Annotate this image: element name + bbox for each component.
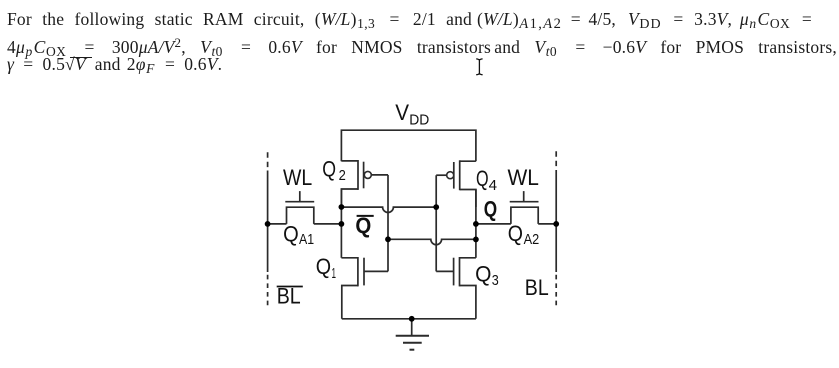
bit line BLbar dashed top: [267, 152, 269, 170]
wire QA2 to BL: [538, 223, 556, 225]
wire right gate line: [435, 175, 437, 271]
radical overline for sqrt(V): [70, 57, 92, 59]
transistor Q4 drain lead: [460, 190, 476, 208]
svg-text:WL: WL: [283, 165, 312, 190]
transistor Q1 gate lead: [364, 270, 388, 272]
wire QA1 to node Qbar: [314, 223, 342, 225]
transistor Q2 gate bar: [363, 162, 365, 189]
transistor Q4 channel: [459, 160, 461, 190]
transistor Q3 gate lead: [436, 270, 453, 272]
wire VDD top rail: [341, 130, 476, 161]
node ground junction: [409, 316, 415, 322]
bit line BLbar dashed bottom: [267, 275, 269, 306]
node Q lower junction: [473, 237, 479, 243]
wire right drain column: [475, 190, 477, 258]
label QA2: [508, 221, 539, 248]
bit line BL dashed top: [555, 151, 557, 170]
transistor Q3 drain lead: [460, 257, 476, 259]
svg-text:V: V: [395, 100, 409, 125]
transistor Q3 source lead: [460, 286, 476, 319]
wire upper cross-couple with hop: [341, 207, 436, 212]
svg-text:Q: Q: [283, 222, 299, 247]
problem text line 1: [7, 11, 472, 33]
transistor Q3 gate bar: [453, 258, 455, 286]
ground bar 3: [410, 349, 415, 351]
svg-text:1: 1: [332, 265, 337, 282]
node Q access junction: [473, 221, 479, 227]
wire lower cross-couple with hop: [388, 239, 476, 244]
svg-text:A1: A1: [299, 231, 314, 248]
transistor QA2 gate plate: [510, 201, 539, 203]
transistor Q3 channel: [459, 257, 461, 286]
node Qbar upper junction: [339, 204, 345, 210]
wire node Q to QA2: [476, 223, 511, 225]
ground bar 2: [403, 342, 422, 344]
node Qbar access junction: [339, 221, 345, 227]
label node Qbar: [355, 213, 373, 238]
wire BLbar to QA1: [268, 223, 287, 225]
transistor Q4 gate lead: [436, 174, 447, 176]
transistor Q4 gate bubble: [447, 172, 454, 179]
mouse I-beam cursor: [476, 59, 482, 75]
svg-text:Q: Q: [322, 157, 336, 182]
transistor Q4 source lead: [460, 160, 476, 162]
label Q1: [316, 254, 336, 282]
svg-text:WL: WL: [508, 165, 539, 190]
bit line BLbar solid: [267, 171, 269, 273]
transistor Q1 gate bar: [363, 258, 365, 286]
wire left gate line: [387, 175, 389, 272]
svg-text:Q: Q: [475, 262, 491, 287]
transistor Q2 source lead: [341, 160, 358, 162]
transistor Q2 drain lead: [341, 189, 358, 207]
svg-text:DD: DD: [409, 111, 429, 128]
transistor QA1 gate stub: [299, 191, 301, 201]
svg-text:BL: BL: [525, 275, 549, 300]
transistor Q1 drain lead: [341, 257, 358, 259]
node upper-wire to right gate junction: [433, 204, 439, 210]
label VDD: [395, 100, 429, 128]
problem text line 3: [7, 56, 222, 78]
transistor QA1 channel staple: [287, 207, 314, 224]
svg-text:A2: A2: [524, 231, 540, 248]
label Q4: [476, 166, 497, 194]
wire ground rail: [342, 318, 476, 320]
svg-text:2: 2: [339, 167, 346, 184]
wire left drain column: [340, 189, 342, 258]
ground bar 1: [396, 335, 429, 337]
label Q3: [475, 262, 499, 289]
svg-text:Q: Q: [316, 254, 331, 279]
svg-text:4: 4: [489, 177, 497, 194]
label BLbar: [277, 283, 303, 308]
label QA1: [283, 222, 314, 249]
transistor Q2 gate lead: [371, 174, 388, 176]
svg-text:Q: Q: [476, 166, 489, 191]
transistor Q2 channel: [357, 160, 359, 190]
label Q2: [322, 157, 346, 185]
transistor Q1 source lead: [342, 286, 358, 319]
bit line BL solid: [555, 170, 557, 272]
node left gate to lower-wire junction: [385, 236, 391, 242]
svg-text:3: 3: [492, 272, 499, 289]
transistor QA2 gate stub: [523, 191, 525, 201]
problem text line 2: [7, 34, 837, 61]
transistor Q1 channel: [357, 257, 359, 286]
transistor QA1 gate plate: [285, 201, 314, 203]
svg-text:Q: Q: [508, 221, 523, 246]
ground stub: [411, 319, 413, 336]
transistor Q2 gate bubble: [364, 171, 371, 178]
transistor QA2 channel staple: [511, 207, 538, 224]
node BL junction: [553, 221, 559, 227]
bit line BL dashed bottom: [555, 275, 557, 306]
svg-text:Q: Q: [484, 197, 497, 222]
node BLbar junction: [265, 221, 271, 227]
transistor Q4 gate bar: [453, 162, 455, 189]
